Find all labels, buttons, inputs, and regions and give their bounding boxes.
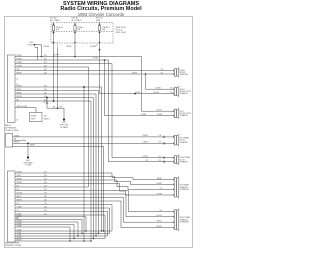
svg-text:GY/BK: GY/BK bbox=[157, 193, 163, 195]
svg-text:C1: C1 bbox=[16, 78, 18, 80]
svg-text:GY/RD: GY/RD bbox=[17, 62, 23, 64]
svg-text:DG/OR: DG/OR bbox=[156, 215, 162, 217]
svg-text:DG/RD: DG/RD bbox=[93, 57, 99, 59]
svg-text:G301: G301 bbox=[26, 160, 30, 162]
wire radio pin3 to RR door speaker (+) bbox=[15, 63, 112, 65]
svg-text:BK/RD: BK/RD bbox=[17, 72, 23, 74]
svg-text:OR/WT: OR/WT bbox=[17, 230, 22, 232]
svg-text:BR/RD: BR/RD bbox=[17, 92, 23, 94]
wire amplifier pin7 to R rear speaker w2 bbox=[15, 193, 126, 195]
wire amplifier pin9 to R rear speaker w4 bbox=[15, 200, 121, 202]
svg-text:G202: G202 bbox=[62, 122, 66, 124]
wire joint connector row4 to amplifier lower pin bbox=[13, 145, 104, 147]
svg-text:DB/YL: DB/YL bbox=[17, 89, 22, 91]
wire amplifier pin11 down to lower pin row bbox=[15, 207, 110, 209]
ground G202 branch from radio pin10 bbox=[46, 97, 48, 99]
svg-text:(ON: (ON bbox=[44, 115, 48, 117]
wire amplifier lower pin15 bbox=[15, 219, 82, 221]
noise suppressor from radio pin12 bbox=[15, 107, 36, 109]
wire amplifier lower pin17 bbox=[15, 224, 74, 226]
svg-text:NOISE: NOISE bbox=[31, 115, 37, 117]
splice feed1 / radio pin11 bbox=[53, 100, 55, 102]
wire radio pin11 down to amplifier lower pin bbox=[15, 100, 91, 102]
wire radio pin9 down to amplifier lower pin bbox=[15, 93, 96, 95]
wire radio pin10 down to amplifier lower pin bbox=[15, 97, 94, 99]
svg-text:WT/RD: WT/RD bbox=[17, 96, 23, 98]
svg-text:BK: BK bbox=[53, 54, 56, 56]
svg-text:SPEAKER: SPEAKER bbox=[180, 160, 189, 163]
wire amplifier lower pin23 bbox=[15, 240, 91, 242]
ground G202 terminal bbox=[63, 119, 65, 121]
splice node on feed3 wire bbox=[134, 93, 136, 95]
svg-text:C1: C1 bbox=[96, 45, 98, 47]
wire joint connector stub bbox=[13, 139, 26, 141]
wire amplifier pin13 down to lower pin row bbox=[15, 214, 105, 216]
speaker: right rear (premium) bbox=[173, 211, 175, 213]
title line 2 bbox=[3, 6, 199, 12]
splice node on feed3 drop bbox=[99, 49, 101, 51]
svg-text:DB/WT: DB/WT bbox=[14, 135, 19, 137]
pin at bottom of junction block feed 3 bbox=[99, 42, 100, 43]
svg-text:SPEAKER: SPEAKER bbox=[180, 141, 189, 144]
svg-text:RD/WT: RD/WT bbox=[28, 45, 35, 47]
wire amplifier lower pin19 bbox=[15, 230, 112, 232]
svg-text:GY/RD: GY/RD bbox=[143, 156, 149, 158]
wire amplifier lower pin20 bbox=[15, 233, 110, 235]
wire amplifier pin2 to L rear speaker w2 bbox=[15, 176, 115, 178]
wire radio pin7 down to amplifier lower pin bbox=[15, 86, 102, 88]
svg-text:DB/WT: DB/WT bbox=[143, 135, 148, 137]
noise suppressor box bbox=[30, 113, 43, 122]
wire splice to radio pin 2 bbox=[35, 46, 38, 48]
svg-text:(PREMIUM): (PREMIUM) bbox=[180, 189, 190, 191]
svg-text:BK/WT: BK/WT bbox=[30, 145, 35, 147]
wire joint connector to L rear door speaker (+) bbox=[13, 136, 174, 138]
wire feed2 fuse6 down to radio pin1 splice bbox=[74, 43, 76, 57]
ground G301 terminal bbox=[27, 156, 29, 158]
svg-text:DG/WT: DG/WT bbox=[17, 221, 22, 223]
wire amplifier pin6 to R rear speaker w1 bbox=[15, 190, 129, 192]
svg-text:BR/YL: BR/YL bbox=[157, 221, 162, 223]
svg-text:PK/BK: PK/BK bbox=[66, 46, 72, 48]
svg-text:(PREMIUM): (PREMIUM) bbox=[180, 221, 190, 223]
wire amplifier pin3 to L rear speaker w3 bbox=[15, 179, 117, 181]
svg-text:BK/RD: BK/RD bbox=[157, 178, 163, 180]
wire radio pin2 to LF door speaker (-) and RR door speaker (-) bbox=[15, 59, 109, 61]
svg-text:DB: DB bbox=[14, 139, 16, 141]
svg-text:(LEFT SIDE): (LEFT SIDE) bbox=[116, 32, 127, 34]
svg-text:TWEETER: TWEETER bbox=[180, 74, 189, 76]
svg-text:DB/OR: DB/OR bbox=[14, 142, 20, 144]
wire splice to radio pin 1 bbox=[35, 44, 42, 46]
wire junction block ground lead down to G202 splice bbox=[57, 43, 59, 49]
wire feed3 circuit breaker down to RF door speaker (-) bbox=[99, 43, 101, 94]
joint connector box bbox=[6, 134, 13, 148]
speaker: right front door bbox=[173, 88, 175, 90]
wire amplifier lower pin22 bbox=[15, 238, 105, 240]
svg-text:RUN: RUN bbox=[96, 20, 101, 22]
svg-text:DB/OR: DB/OR bbox=[17, 85, 23, 87]
fuse F1 (FUSE 23) bbox=[53, 24, 54, 25]
fuse F2 (FUSE 6) bbox=[74, 24, 75, 25]
svg-text:DB/OR: DB/OR bbox=[143, 142, 149, 144]
junction block internal dashed divider bbox=[51, 30, 113, 32]
wire ground branch drop bbox=[63, 108, 65, 119]
wire feed1 fuse23 down to radio pin11 splice bbox=[53, 43, 55, 102]
svg-text:ALL TIMES: ALL TIMES bbox=[50, 19, 60, 22]
svg-text:DG/RD: DG/RD bbox=[135, 92, 141, 94]
svg-text:RD/WT: RD/WT bbox=[156, 110, 162, 112]
wire amplifier pin8 to R rear speaker w3 bbox=[15, 197, 124, 199]
svg-text:ALL TIMES: ALL TIMES bbox=[72, 19, 82, 22]
wire amplifier pin10 down to lower pin row bbox=[15, 204, 112, 206]
inline connector tick on ground lead bbox=[56, 54, 58, 56]
svg-text:SUPP: SUPP bbox=[31, 118, 36, 120]
wire amplifier lower pin21 bbox=[15, 235, 108, 237]
svg-text:DG/RD: DG/RD bbox=[132, 72, 138, 74]
pin at bottom of junction block feed 1 bbox=[53, 42, 54, 43]
svg-text:RADIO NOISE: RADIO NOISE bbox=[17, 105, 27, 108]
wire amplifier lower pin14 bbox=[15, 216, 86, 218]
pin at bottom of junction block feed 2 bbox=[74, 42, 75, 43]
wire long vertical from radio pin7 area down to amplifier lower row (pack line) bbox=[83, 87, 85, 241]
wire radio pin4 to amplifier pin5 bbox=[15, 66, 89, 68]
wire amplifier pin4 to L rear speaker w4 bbox=[15, 183, 120, 185]
wire amplifier lower pin18 bbox=[15, 226, 70, 228]
speaker: left rear (premium) bbox=[173, 178, 175, 180]
svg-text:BK/WT: BK/WT bbox=[17, 240, 22, 242]
radio box bbox=[8, 55, 16, 123]
svg-text:SPEAKER: SPEAKER bbox=[180, 92, 189, 95]
wire ground branch horizontal bbox=[47, 107, 64, 109]
inline connector on ground branch bbox=[46, 101, 48, 103]
wire amplifier pin1 to L rear speaker w1 bbox=[15, 172, 112, 174]
border frame bbox=[5, 17, 193, 248]
ground G301 branch bbox=[27, 142, 29, 144]
title line 1 bbox=[3, 1, 199, 7]
title line 3 bbox=[3, 12, 199, 17]
svg-text:BR/WT: BR/WT bbox=[157, 226, 162, 228]
svg-text:(LEFT SIDE: (LEFT SIDE bbox=[60, 125, 69, 127]
svg-text:PK/BK: PK/BK bbox=[157, 114, 163, 116]
svg-text:C2: C2 bbox=[43, 102, 45, 104]
wire radio pin1 to LF door speaker (+) bbox=[15, 56, 142, 58]
svg-text:RADIO): RADIO) bbox=[44, 117, 50, 120]
svg-text:DG/RD: DG/RD bbox=[17, 65, 23, 67]
svg-text:RD/WT: RD/WT bbox=[17, 55, 23, 57]
wire amplifier lower pin16 bbox=[15, 221, 78, 223]
svg-text:SPEAKER: SPEAKER bbox=[180, 114, 189, 117]
amplifier box bbox=[8, 171, 16, 242]
wire radio pin6 to RF tweeter (-) with branch to RF door speaker bbox=[15, 73, 174, 75]
speaker: right front tweeter bbox=[173, 69, 175, 71]
junction block (dashed outline) bbox=[51, 23, 113, 44]
fuse F3 (C BRKR 1) bbox=[99, 24, 100, 25]
speaker: left rear door bbox=[173, 136, 175, 138]
svg-text:RD/WT: RD/WT bbox=[17, 215, 22, 217]
svg-text:(PREMIUM SYSTEM): (PREMIUM SYSTEM) bbox=[5, 245, 22, 247]
speaker: left front door bbox=[173, 110, 175, 112]
svg-text:PK/BK: PK/BK bbox=[17, 58, 23, 60]
wire amplifier pin12 down to lower pin row bbox=[15, 211, 108, 213]
svg-text:C3: C3 bbox=[16, 120, 18, 122]
wire radio pin8 down to amplifier lower pin bbox=[15, 90, 99, 92]
wire radio pin5 to RF tweeter (+) bbox=[15, 70, 174, 72]
speaker: right rear door bbox=[173, 157, 175, 159]
svg-text:DG/WT: DG/WT bbox=[156, 183, 162, 185]
splice node on pin6 wire bbox=[145, 73, 147, 75]
wire joint connector to L rear door speaker (-) bbox=[13, 142, 174, 144]
svg-text:SOUND SYSTEM): SOUND SYSTEM) bbox=[5, 130, 20, 132]
svg-text:DG/RD: DG/RD bbox=[156, 88, 162, 90]
svg-text:RD/WT: RD/WT bbox=[44, 46, 51, 48]
svg-text:DG/OR: DG/OR bbox=[153, 92, 159, 94]
